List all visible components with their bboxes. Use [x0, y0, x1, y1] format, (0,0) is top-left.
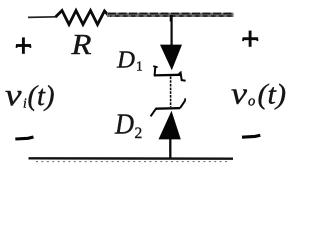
wire top-left input — [28, 16, 57, 19]
svg-text:o: o — [248, 94, 255, 110]
node minus sign left — [15, 137, 33, 139]
svg-text:i: i — [23, 96, 27, 111]
wire D2 to bottom — [169, 139, 171, 158]
diode D2 zener right tick serif — [184, 98, 186, 101]
node minus sign right — [242, 135, 260, 137]
svg-text:D: D — [116, 47, 135, 74]
diode D2 zener right tick — [180, 100, 185, 108]
svg-text:2: 2 — [135, 125, 143, 142]
diode D1 zener right kink — [178, 73, 186, 81]
wire bottom — [29, 157, 234, 160]
svg-text:v: v — [231, 76, 247, 111]
wire vertical to D1 — [171, 15, 173, 46]
wire top-right speckle lower — [110, 15, 233, 17]
diode D1 zener bar — [154, 74, 180, 77]
svg-text:v: v — [5, 77, 22, 112]
node junction top — [170, 15, 172, 22]
resistor R — [56, 11, 109, 25]
diode D2 triangle — [159, 111, 181, 140]
diode D2 zener bar — [155, 107, 180, 110]
wire between D1 and D2 — [170, 77, 172, 108]
svg-text:(t): (t) — [258, 80, 287, 111]
svg-text:R: R — [70, 30, 91, 61]
svg-text:(t): (t) — [28, 81, 55, 112]
wire top-right speckle upper — [108, 13, 233, 15]
svg-text:1: 1 — [136, 59, 143, 74]
diode D1 zener left tick serif — [153, 66, 157, 67]
svg-text:D: D — [114, 110, 134, 141]
node plus sign left — [16, 37, 31, 53]
node plus sign right — [243, 31, 259, 47]
diode D1 triangle — [160, 45, 182, 71]
diode D1 zener left tick — [154, 67, 157, 76]
diode D2 zener left tick — [151, 109, 156, 117]
wire top-right — [107, 13, 234, 17]
wire bottom scan artifact — [36, 161, 228, 163]
